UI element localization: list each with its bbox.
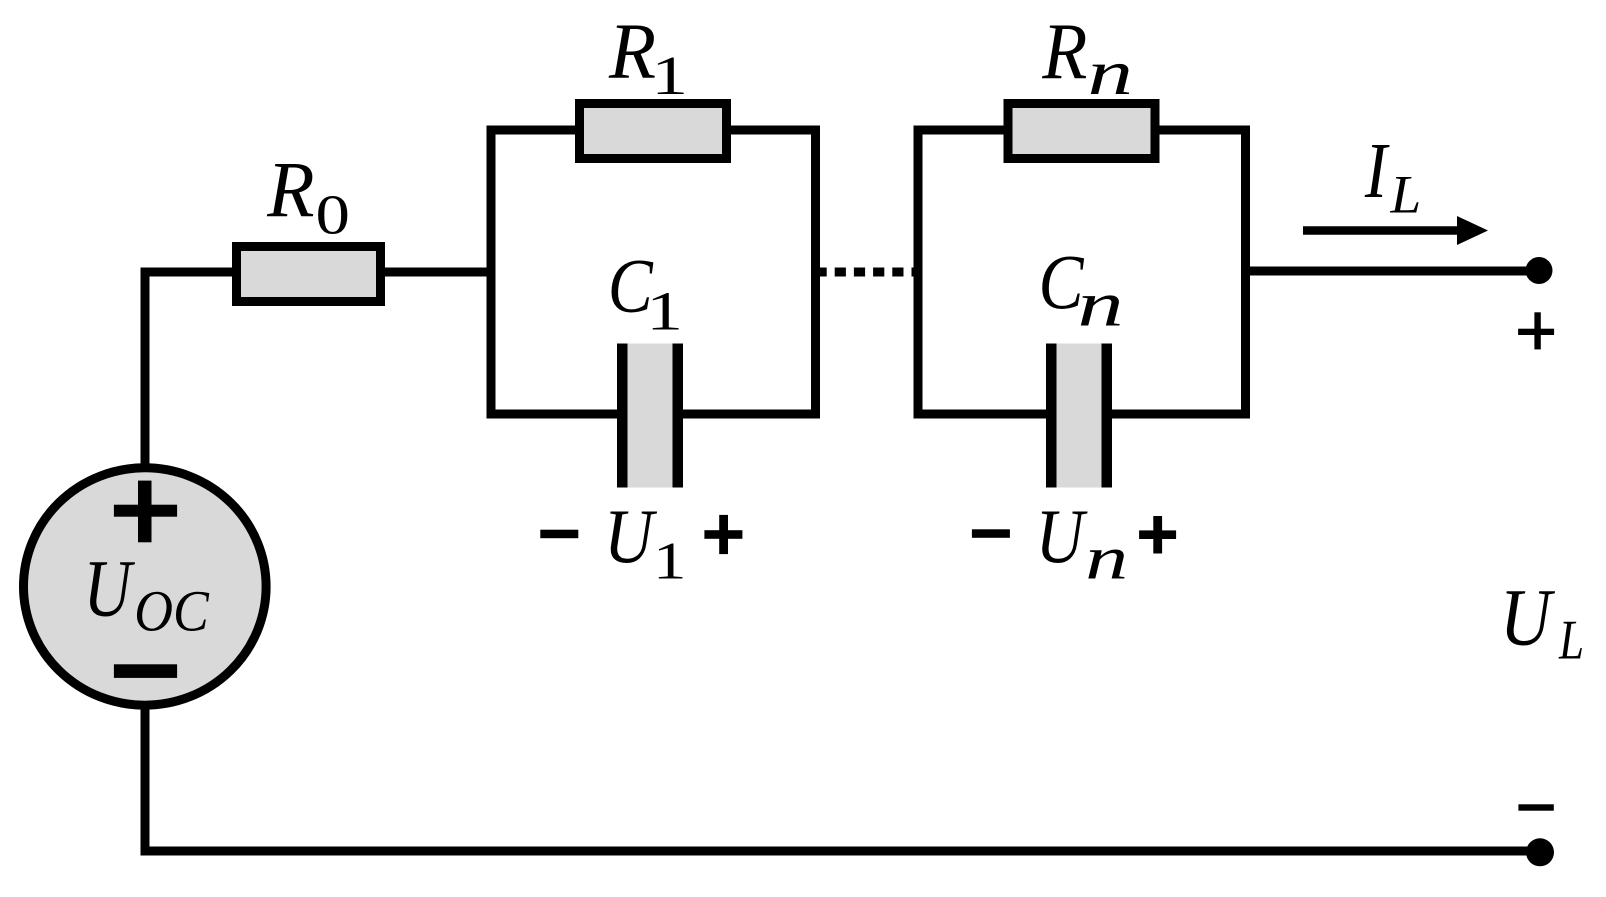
label -Un+ <box>972 493 1176 592</box>
label R0 <box>266 147 350 247</box>
svg-text:L: L <box>1390 164 1422 224</box>
label UL <box>1500 571 1584 671</box>
voltage source Uoc <box>24 468 267 705</box>
svg-text:L: L <box>1558 609 1584 671</box>
svg-text:R: R <box>1041 8 1087 96</box>
label C1 <box>608 243 683 341</box>
svg-text:U: U <box>1500 571 1555 662</box>
svg-text:I: I <box>1364 127 1390 215</box>
label R1 <box>608 9 688 106</box>
resistor Rn <box>1008 104 1155 159</box>
output wire to positive terminal <box>1246 267 1540 276</box>
svg-text:OC: OC <box>134 579 209 644</box>
svg-text:n: n <box>1085 525 1128 593</box>
svg-text:n: n <box>1077 270 1123 340</box>
label Uoc <box>84 543 210 643</box>
wire R0 to RC block 1 <box>377 268 495 277</box>
label Cn <box>1038 239 1123 340</box>
label Rn <box>1041 8 1133 108</box>
RC block n loop wire <box>918 130 1246 414</box>
svg-text:R: R <box>266 147 314 235</box>
svg-text:n: n <box>1088 37 1133 108</box>
node positive terminal <box>1526 257 1553 284</box>
node negative terminal <box>1526 838 1554 866</box>
label -U1+ <box>540 494 742 591</box>
resistor R0 <box>237 247 381 302</box>
plus sign in source <box>114 481 177 543</box>
resistor R1 <box>580 104 727 159</box>
svg-text:R: R <box>608 9 656 96</box>
RC block 1 loop wire <box>491 130 816 414</box>
label minus at terminal <box>1518 804 1553 810</box>
bottom return wire <box>145 703 1540 851</box>
svg-text:1: 1 <box>646 280 683 341</box>
capacitor C1 <box>617 344 683 488</box>
wire from source top to R0 <box>145 272 240 470</box>
dotted wire between RC blocks <box>816 268 919 277</box>
label IL <box>1364 127 1421 225</box>
svg-text:1: 1 <box>651 45 688 106</box>
svg-text:U: U <box>604 494 657 579</box>
current arrow IL <box>1303 216 1488 245</box>
minus sign in source <box>114 664 177 678</box>
label plus at terminal <box>1518 312 1554 349</box>
svg-text:0: 0 <box>316 184 350 246</box>
capacitor Cn <box>1046 344 1112 488</box>
svg-text:U: U <box>1036 493 1088 579</box>
svg-text:1: 1 <box>653 532 687 591</box>
svg-text:U: U <box>84 543 136 633</box>
